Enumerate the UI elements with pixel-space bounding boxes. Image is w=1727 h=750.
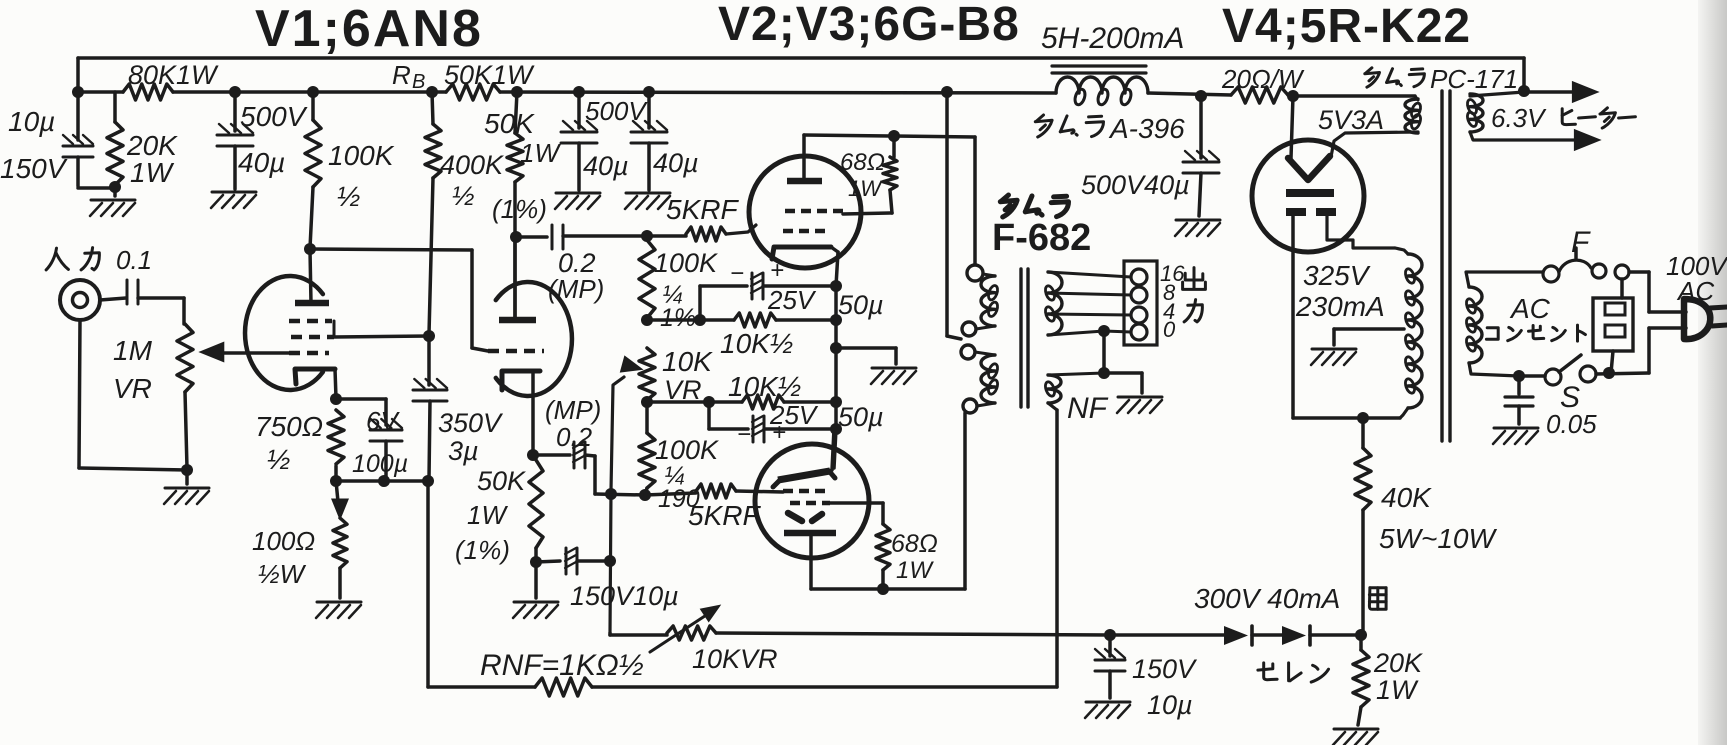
svg-text:(MP): (MP): [545, 395, 601, 425]
svg-text:5W~10W: 5W~10W: [1379, 523, 1497, 554]
svg-text:10µ: 10µ: [1147, 690, 1193, 720]
svg-text:40K: 40K: [1381, 482, 1432, 513]
svg-text:(1%): (1%): [455, 535, 510, 565]
svg-text:AC: AC: [1676, 276, 1714, 306]
svg-text:½: ½: [267, 444, 290, 475]
svg-text:50K: 50K: [484, 108, 535, 139]
svg-text:R: R: [392, 60, 411, 90]
svg-text:40µ: 40µ: [583, 151, 629, 181]
svg-text:100K: 100K: [655, 435, 719, 465]
svg-text:1W: 1W: [520, 138, 561, 168]
svg-text:0: 0: [1163, 317, 1176, 342]
svg-text:0.1: 0.1: [116, 245, 152, 275]
svg-text:6V: 6V: [366, 406, 400, 436]
svg-text:40µ: 40µ: [238, 147, 285, 178]
svg-text:V4;5R-K22: V4;5R-K22: [1222, 0, 1471, 53]
svg-text:300V 40mA: 300V 40mA: [1194, 583, 1340, 614]
svg-text:100K: 100K: [654, 248, 718, 278]
svg-text:100µ: 100µ: [352, 450, 408, 478]
svg-text:5V3A: 5V3A: [1318, 105, 1384, 135]
svg-text:1W: 1W: [467, 500, 508, 530]
svg-text:150V10µ: 150V10µ: [570, 581, 679, 611]
svg-text:100K: 100K: [328, 140, 395, 171]
svg-text:1W: 1W: [130, 157, 175, 188]
svg-text:68Ω: 68Ω: [840, 149, 885, 176]
svg-text:½: ½: [452, 181, 475, 211]
svg-text:20Ω/W: 20Ω/W: [1221, 64, 1305, 94]
svg-text:−: −: [737, 421, 751, 448]
svg-text:F-682: F-682: [992, 217, 1091, 259]
svg-text:V1;6AN8: V1;6AN8: [255, 0, 483, 58]
svg-text:1M: 1M: [113, 335, 153, 366]
svg-text:20K: 20K: [1373, 648, 1423, 678]
svg-text:150V: 150V: [0, 153, 68, 184]
svg-text:½W: ½W: [258, 559, 307, 589]
svg-text:−: −: [730, 260, 744, 287]
svg-text:5H-200mA: 5H-200mA: [1041, 22, 1184, 55]
svg-text:10K½: 10K½: [728, 371, 801, 402]
svg-text:50K: 50K: [477, 466, 526, 496]
svg-text:RNF=1KΩ½: RNF=1KΩ½: [480, 649, 644, 682]
svg-text:PC-171: PC-171: [1430, 64, 1518, 94]
svg-text:50µ: 50µ: [838, 290, 884, 320]
svg-text:1W: 1W: [1376, 675, 1419, 705]
svg-text:100Ω: 100Ω: [252, 526, 315, 556]
svg-text:230mA: 230mA: [1295, 291, 1385, 322]
svg-text:+: +: [770, 257, 784, 284]
svg-text:VR: VR: [113, 373, 152, 404]
svg-text:400K: 400K: [440, 150, 504, 180]
svg-text:NF: NF: [1067, 392, 1109, 425]
svg-text:25V: 25V: [767, 285, 817, 315]
svg-text:40µ: 40µ: [653, 148, 699, 178]
svg-text:0.05: 0.05: [1546, 409, 1597, 439]
svg-text:5KRF: 5KRF: [666, 194, 739, 225]
svg-text:(MP): (MP): [548, 274, 604, 304]
svg-text:F: F: [1571, 226, 1591, 259]
svg-text:A-396: A-396: [1108, 113, 1185, 144]
svg-text:10µ: 10µ: [8, 106, 55, 137]
svg-text:½: ½: [337, 181, 360, 212]
svg-text:10KVR: 10KVR: [692, 644, 778, 674]
svg-text:50K1W: 50K1W: [444, 60, 535, 90]
svg-text:B: B: [412, 71, 425, 93]
svg-text:1W: 1W: [848, 176, 883, 201]
svg-text:(1%): (1%): [492, 194, 547, 224]
svg-text:500V: 500V: [585, 96, 648, 126]
svg-text:325V: 325V: [1303, 260, 1371, 291]
svg-text:+: +: [772, 419, 786, 446]
svg-text:0.2: 0.2: [556, 422, 593, 452]
svg-text:1%: 1%: [660, 304, 696, 332]
svg-text:10K½: 10K½: [720, 328, 793, 359]
svg-text:50µ: 50µ: [838, 402, 884, 432]
svg-text:VR: VR: [664, 375, 702, 405]
svg-text:500V: 500V: [240, 101, 308, 132]
svg-text:500V40µ: 500V40µ: [1081, 170, 1190, 200]
svg-text:AC: AC: [1509, 293, 1551, 324]
svg-text:150V: 150V: [1132, 654, 1198, 684]
svg-text:68Ω: 68Ω: [891, 530, 938, 558]
svg-text:350V: 350V: [438, 408, 504, 438]
svg-text:750Ω: 750Ω: [255, 411, 323, 442]
svg-text:5KRF: 5KRF: [688, 500, 761, 531]
svg-text:1W: 1W: [896, 557, 934, 584]
svg-text:3µ: 3µ: [448, 436, 479, 466]
svg-text:10K: 10K: [662, 346, 713, 377]
svg-text:V2;V3;6G-B8: V2;V3;6G-B8: [718, 0, 1020, 51]
svg-text:6.3V: 6.3V: [1491, 103, 1547, 133]
svg-text:80K1W: 80K1W: [128, 60, 219, 90]
